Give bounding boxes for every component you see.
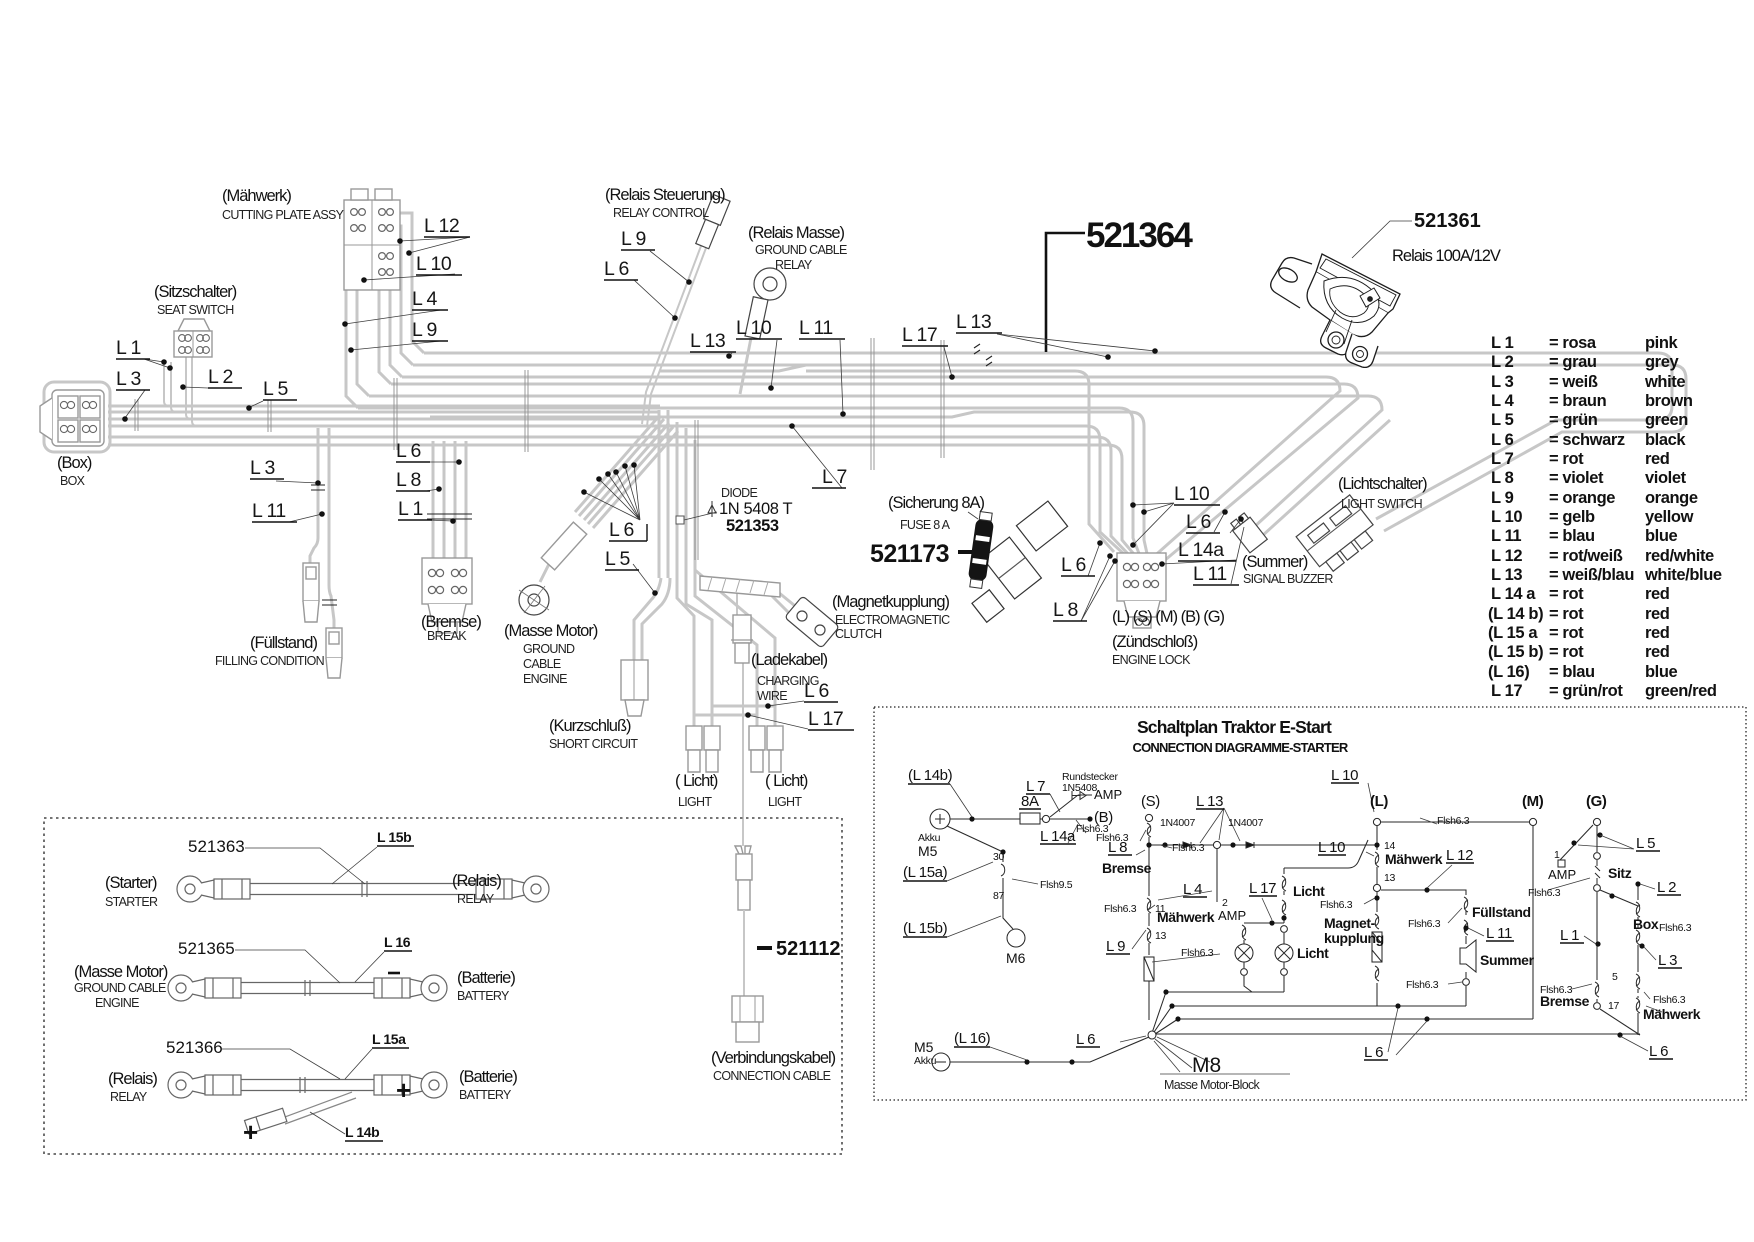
svg-text:BREAK: BREAK <box>427 629 467 643</box>
svg-text:Flsh6.3: Flsh6.3 <box>1528 887 1561 899</box>
svg-text:= grün/rot: = grün/rot <box>1549 682 1623 700</box>
svg-text:L 7: L 7 <box>822 466 847 488</box>
svg-text:17: 17 <box>1608 1000 1620 1012</box>
svg-text:(L 14b): (L 14b) <box>908 767 953 784</box>
svg-text:(Starter): (Starter) <box>105 874 157 892</box>
svg-text:FUSE 8 A: FUSE 8 A <box>900 518 951 532</box>
svg-text:white/blue: white/blue <box>1644 566 1722 584</box>
svg-text:(Masse Motor): (Masse Motor) <box>504 622 598 640</box>
svg-text:red: red <box>1645 450 1669 468</box>
svg-text:L 5: L 5 <box>605 548 631 570</box>
svg-text:L 3: L 3 <box>116 368 141 390</box>
svg-text:L 13: L 13 <box>1196 793 1223 810</box>
svg-text:L 7: L 7 <box>1491 450 1514 468</box>
svg-text:L 2: L 2 <box>1491 353 1514 371</box>
svg-text:L 14b: L 14b <box>345 1124 379 1140</box>
svg-text:LIGHT: LIGHT <box>768 795 802 809</box>
svg-text:kupplung: kupplung <box>1324 930 1384 946</box>
svg-text:Masse Motor-Block: Masse Motor-Block <box>1164 1078 1261 1092</box>
svg-text:= rot: = rot <box>1549 585 1584 603</box>
svg-text:brown: brown <box>1645 392 1693 410</box>
svg-text:(G): (G) <box>1586 793 1607 810</box>
svg-text:(Batterie): (Batterie) <box>457 969 515 987</box>
svg-text:L 12: L 12 <box>1446 847 1473 864</box>
svg-text:L 6: L 6 <box>1076 1031 1095 1048</box>
svg-text:orange: orange <box>1645 489 1698 507</box>
svg-text:5: 5 <box>1612 971 1618 983</box>
svg-text:RELAY: RELAY <box>457 892 495 906</box>
svg-text:ELECTROMAGNETIC: ELECTROMAGNETIC <box>835 613 950 627</box>
svg-text:Licht: Licht <box>1297 945 1329 961</box>
svg-text:(Magnetkupplung): (Magnetkupplung) <box>832 593 950 611</box>
svg-text:(L) (S) (M) (B) (G): (L) (S) (M) (B) (G) <box>1112 608 1225 626</box>
svg-text:L 8: L 8 <box>1053 599 1078 621</box>
svg-text:L 12: L 12 <box>424 215 459 237</box>
svg-text:1: 1 <box>1554 849 1560 861</box>
svg-text:L 10: L 10 <box>416 253 452 275</box>
svg-text:red: red <box>1645 605 1669 623</box>
svg-text:BOX: BOX <box>60 474 86 488</box>
svg-text:L 6: L 6 <box>1491 431 1514 449</box>
svg-text:L 10: L 10 <box>736 317 772 339</box>
svg-text:L 16: L 16 <box>384 934 411 950</box>
svg-text:+: + <box>396 1075 411 1105</box>
svg-text:L 9: L 9 <box>1491 489 1514 507</box>
svg-text:GROUND CABLE: GROUND CABLE <box>755 243 847 257</box>
svg-text:L 14 a: L 14 a <box>1491 585 1536 603</box>
svg-text:CLUTCH: CLUTCH <box>835 627 882 641</box>
svg-text:L 3: L 3 <box>250 457 275 479</box>
svg-text:L 13: L 13 <box>690 330 725 352</box>
svg-text:L 15a: L 15a <box>372 1031 406 1047</box>
svg-text:(L 16): (L 16) <box>954 1030 991 1047</box>
svg-text:grey: grey <box>1645 353 1679 371</box>
svg-text:Relais 100A/12V: Relais 100A/12V <box>1392 247 1501 265</box>
svg-text:blue: blue <box>1645 663 1678 681</box>
svg-text:LIGHT SWITCH: LIGHT SWITCH <box>1341 497 1423 511</box>
svg-text:red: red <box>1645 585 1669 603</box>
svg-text:= rot: = rot <box>1549 624 1584 642</box>
svg-text:= rot: = rot <box>1549 643 1584 661</box>
svg-text:green: green <box>1645 411 1688 429</box>
svg-text:521361: 521361 <box>1414 210 1481 232</box>
svg-text:(Sicherung 8A): (Sicherung 8A) <box>888 494 985 512</box>
svg-text:= rosa: = rosa <box>1549 334 1597 352</box>
svg-text:= orange: = orange <box>1549 489 1615 507</box>
svg-text:(Relais): (Relais) <box>108 1070 157 1088</box>
svg-text:(Zündschloß): (Zündschloß) <box>1112 633 1198 651</box>
svg-text:(Lichtschalter): (Lichtschalter) <box>1338 475 1427 493</box>
svg-text:(L 15a): (L 15a) <box>903 864 948 881</box>
svg-text:= weiß: = weiß <box>1549 373 1598 391</box>
svg-text:SIGNAL BUZZER: SIGNAL BUZZER <box>1243 572 1333 586</box>
svg-text:Flsh6.3: Flsh6.3 <box>1320 899 1353 911</box>
svg-text:L 5: L 5 <box>1491 411 1514 429</box>
svg-text:L 6: L 6 <box>604 258 629 280</box>
svg-text:L 8: L 8 <box>1108 839 1127 856</box>
svg-text:( Licht): ( Licht) <box>765 772 808 790</box>
svg-text:BATTERY: BATTERY <box>459 1088 512 1102</box>
svg-text:L 3: L 3 <box>1658 952 1677 969</box>
svg-text:Box: Box <box>1633 916 1659 932</box>
svg-text:WIRE: WIRE <box>757 689 787 703</box>
svg-text:Füllstand: Füllstand <box>1472 904 1531 920</box>
svg-text:(Batterie): (Batterie) <box>459 1068 517 1086</box>
svg-text:Summer: Summer <box>1480 952 1535 968</box>
svg-text:(L): (L) <box>1370 793 1388 810</box>
svg-text:L 6: L 6 <box>1061 554 1086 576</box>
svg-text:L 12: L 12 <box>1491 547 1522 565</box>
svg-text:L 2: L 2 <box>208 366 233 388</box>
svg-text:L 11: L 11 <box>799 317 833 339</box>
svg-text:L 10: L 10 <box>1331 767 1358 784</box>
svg-text:L 4: L 4 <box>1183 881 1202 898</box>
svg-text:L 17: L 17 <box>1491 682 1522 700</box>
svg-text:(Relais Masse): (Relais Masse) <box>748 224 845 242</box>
svg-text:L 9: L 9 <box>621 228 646 250</box>
svg-text:Flsh6.3: Flsh6.3 <box>1437 815 1470 827</box>
svg-text:pink: pink <box>1645 334 1679 352</box>
svg-text:(Füllstand): (Füllstand) <box>250 634 317 652</box>
svg-text:L 6: L 6 <box>609 519 634 541</box>
svg-text:GROUND CABLE: GROUND CABLE <box>74 981 166 995</box>
svg-text:L 5: L 5 <box>1636 835 1655 852</box>
svg-text:Akku: Akku <box>914 1055 937 1067</box>
svg-text:(Relais): (Relais) <box>452 872 501 890</box>
svg-text:Flsh9.5: Flsh9.5 <box>1040 879 1073 891</box>
svg-text:13: 13 <box>1384 872 1396 884</box>
svg-text:blue: blue <box>1645 527 1678 545</box>
svg-text:Flsh6.3: Flsh6.3 <box>1653 994 1686 1006</box>
svg-text:L 10: L 10 <box>1491 508 1522 526</box>
svg-text:(Kurzschluß): (Kurzschluß) <box>549 717 631 735</box>
svg-text:Schaltplan Traktor E-Start: Schaltplan Traktor E-Start <box>1137 717 1332 737</box>
svg-text:(Box): (Box) <box>57 454 92 472</box>
svg-text:8A: 8A <box>1021 793 1039 810</box>
svg-text:green/red: green/red <box>1645 682 1717 700</box>
svg-text:Bremse: Bremse <box>1102 860 1152 876</box>
svg-text:L 14a: L 14a <box>1040 828 1076 845</box>
svg-text:red: red <box>1645 624 1669 642</box>
svg-text:= rot: = rot <box>1549 450 1584 468</box>
svg-text:L 10: L 10 <box>1318 839 1345 856</box>
svg-text:L 8: L 8 <box>396 469 421 491</box>
svg-text:L 17: L 17 <box>902 324 937 346</box>
svg-text:= rot/weiß: = rot/weiß <box>1549 547 1623 565</box>
svg-text:L 4: L 4 <box>1491 392 1515 410</box>
svg-text:521364: 521364 <box>1086 216 1193 255</box>
svg-text:521366: 521366 <box>166 1038 223 1057</box>
svg-text:= gelb: = gelb <box>1549 508 1595 526</box>
svg-text:(M): (M) <box>1522 793 1544 810</box>
svg-text:521365: 521365 <box>178 939 235 958</box>
svg-text:L 1: L 1 <box>1560 927 1579 944</box>
svg-text:Sitz: Sitz <box>1608 865 1632 881</box>
svg-text:Mähwerk: Mähwerk <box>1385 851 1443 867</box>
svg-text:30: 30 <box>993 851 1005 863</box>
svg-text:13: 13 <box>1155 930 1167 942</box>
svg-text:(L 15b): (L 15b) <box>903 920 948 937</box>
svg-text:L 17: L 17 <box>808 708 843 730</box>
svg-text:M5: M5 <box>914 1039 934 1055</box>
svg-text:CONNECTION CABLE: CONNECTION CABLE <box>713 1069 831 1083</box>
svg-text:+: + <box>243 1117 258 1147</box>
svg-text:( Licht): ( Licht) <box>675 772 718 790</box>
svg-text:black: black <box>1645 431 1686 449</box>
svg-text:= violet: = violet <box>1549 469 1604 487</box>
svg-text:= braun: = braun <box>1549 392 1607 410</box>
svg-text:(L 16): (L 16) <box>1488 663 1529 681</box>
svg-text:(Masse Motor): (Masse Motor) <box>74 963 168 981</box>
svg-text:L 15b: L 15b <box>377 829 411 845</box>
svg-text:STARTER: STARTER <box>105 895 158 909</box>
svg-text:M6: M6 <box>1006 950 1026 966</box>
svg-text:521173: 521173 <box>870 540 949 568</box>
svg-text:1N5408: 1N5408 <box>1062 782 1097 794</box>
svg-text:Flsh6.3: Flsh6.3 <box>1172 842 1205 854</box>
svg-text:(Sitzschalter): (Sitzschalter) <box>154 283 237 301</box>
svg-text:Bremse: Bremse <box>1540 993 1590 1009</box>
svg-text:L 11: L 11 <box>1193 563 1227 585</box>
svg-text:L 11: L 11 <box>1486 925 1512 942</box>
svg-text:(S): (S) <box>1141 793 1160 810</box>
svg-text:= blau: = blau <box>1549 663 1595 681</box>
svg-text:521112: 521112 <box>776 938 841 960</box>
svg-text:L 9: L 9 <box>1106 938 1125 955</box>
svg-text:L 1: L 1 <box>398 498 423 520</box>
svg-text:white: white <box>1644 373 1685 391</box>
svg-text:Magnet-: Magnet- <box>1324 915 1376 931</box>
svg-text:ENGINE: ENGINE <box>95 996 139 1010</box>
svg-text:ENGINE: ENGINE <box>523 672 567 686</box>
svg-text:L 8: L 8 <box>1491 469 1514 487</box>
svg-text:L 13: L 13 <box>1491 566 1522 584</box>
svg-text:LIGHT: LIGHT <box>678 795 712 809</box>
svg-text:Flsh6.3: Flsh6.3 <box>1659 922 1692 934</box>
svg-text:Mähwerk: Mähwerk <box>1157 909 1215 925</box>
svg-text:M8: M8 <box>1192 1054 1221 1077</box>
svg-text:RELAY CONTROL: RELAY CONTROL <box>613 206 709 220</box>
svg-text:AMP: AMP <box>1218 908 1246 923</box>
svg-text:L 13: L 13 <box>956 311 991 333</box>
svg-text:Flsh6.3: Flsh6.3 <box>1408 918 1441 930</box>
svg-text:= grau: = grau <box>1549 353 1597 371</box>
svg-text:BATTERY: BATTERY <box>457 989 510 1003</box>
svg-text:SEAT SWITCH: SEAT SWITCH <box>157 303 234 317</box>
svg-text:L 9: L 9 <box>412 319 437 341</box>
svg-text:M5: M5 <box>918 843 938 859</box>
svg-text:(Verbindungskabel): (Verbindungskabel) <box>711 1049 836 1067</box>
svg-text:(Summer): (Summer) <box>1242 553 1308 571</box>
svg-text:L 6: L 6 <box>804 680 829 702</box>
svg-text:L 6: L 6 <box>396 440 421 462</box>
svg-text:L 10: L 10 <box>1174 483 1210 505</box>
svg-text:L 3: L 3 <box>1491 373 1514 391</box>
svg-text:521353: 521353 <box>726 517 779 535</box>
svg-text:= rot: = rot <box>1549 605 1584 623</box>
svg-text:L 11: L 11 <box>1491 527 1521 545</box>
svg-text:yellow: yellow <box>1645 508 1694 526</box>
svg-text:GROUND: GROUND <box>523 642 575 656</box>
svg-text:Mähwerk: Mähwerk <box>1643 1006 1701 1022</box>
svg-text:L 14a: L 14a <box>1178 539 1224 561</box>
svg-text:(Ladekabel): (Ladekabel) <box>751 651 828 669</box>
svg-text:= blau: = blau <box>1549 527 1595 545</box>
svg-text:L 6: L 6 <box>1649 1043 1668 1060</box>
svg-text:= schwarz: = schwarz <box>1549 431 1625 449</box>
svg-text:521363: 521363 <box>188 837 245 856</box>
svg-text:(L 15 b): (L 15 b) <box>1488 643 1543 661</box>
svg-text:FILLING CONDITION: FILLING CONDITION <box>215 654 325 668</box>
svg-text:Licht: Licht <box>1293 883 1325 899</box>
svg-text:L 17: L 17 <box>1249 880 1276 897</box>
svg-text:ENGINE LOCK: ENGINE LOCK <box>1112 653 1191 667</box>
svg-text:Flsh6.3: Flsh6.3 <box>1406 979 1439 991</box>
svg-text:Flsh6.3: Flsh6.3 <box>1181 947 1214 959</box>
svg-text:AMP: AMP <box>1094 787 1122 802</box>
svg-text:(L 15 a: (L 15 a <box>1488 624 1538 642</box>
svg-text:RELAY: RELAY <box>775 258 813 272</box>
svg-text:SHORT CIRCUIT: SHORT CIRCUIT <box>549 737 638 751</box>
svg-text:1N4007: 1N4007 <box>1228 817 1263 829</box>
svg-text:DIODE: DIODE <box>721 486 757 500</box>
svg-text:= grün: = grün <box>1549 411 1598 429</box>
svg-text:(Relais Steuerung): (Relais Steuerung) <box>605 186 725 204</box>
svg-text:L 1: L 1 <box>1491 334 1514 352</box>
svg-text:red/white: red/white <box>1645 547 1714 565</box>
svg-text:CONNECTION DIAGRAMME-STARTER: CONNECTION DIAGRAMME-STARTER <box>1133 740 1349 755</box>
svg-text:L 6: L 6 <box>1364 1044 1383 1061</box>
svg-text:L 2: L 2 <box>1657 879 1676 896</box>
svg-text:violet: violet <box>1645 469 1687 487</box>
svg-text:1N 5408 T: 1N 5408 T <box>719 500 792 518</box>
svg-text:L 4: L 4 <box>412 288 438 310</box>
svg-text:CABLE: CABLE <box>523 657 561 671</box>
svg-text:AMP: AMP <box>1548 867 1576 882</box>
svg-text:L 5: L 5 <box>263 378 289 400</box>
svg-text:1N4007: 1N4007 <box>1160 817 1195 829</box>
svg-text:RELAY: RELAY <box>110 1090 148 1104</box>
svg-text:L 6: L 6 <box>1186 511 1211 533</box>
svg-text:L 11: L 11 <box>252 500 286 522</box>
svg-text:(L 14 b): (L 14 b) <box>1488 605 1543 623</box>
svg-text:CUTTING PLATE ASSY: CUTTING PLATE ASSY <box>222 208 345 222</box>
svg-text:L 1: L 1 <box>116 337 141 359</box>
svg-text:red: red <box>1645 643 1669 661</box>
svg-text:Flsh6.3: Flsh6.3 <box>1104 903 1137 915</box>
svg-text:= weiß/blau: = weiß/blau <box>1549 566 1634 584</box>
svg-text:87: 87 <box>993 890 1005 902</box>
svg-text:(Mähwerk): (Mähwerk) <box>222 187 291 205</box>
